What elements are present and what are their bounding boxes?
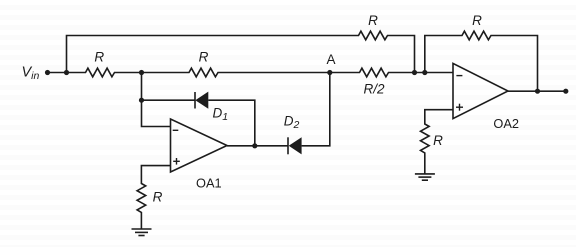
- svg-text:R: R: [433, 133, 443, 148]
- svg-text:R: R: [94, 49, 104, 64]
- svg-text:OA2: OA2: [493, 116, 519, 131]
- svg-text:R: R: [472, 13, 482, 28]
- svg-text:R: R: [153, 190, 163, 205]
- svg-text:D2: D2: [284, 113, 300, 131]
- svg-text:R: R: [199, 49, 209, 64]
- svg-text:D1: D1: [213, 106, 229, 124]
- svg-text:R/2: R/2: [363, 81, 385, 96]
- svg-text:Vin: Vin: [22, 65, 40, 83]
- svg-text:R: R: [368, 13, 378, 28]
- svg-text:OA1: OA1: [196, 175, 222, 190]
- svg-text:A: A: [326, 52, 335, 67]
